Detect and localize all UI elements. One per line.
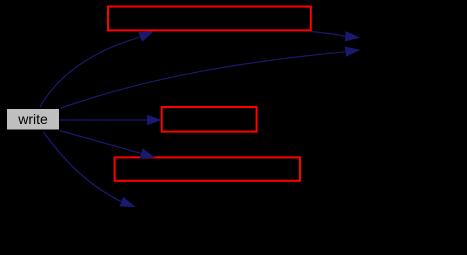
node: lower red box	[115, 157, 300, 180]
arrowhead: top red box to far right node	[345, 31, 361, 41]
arrowhead: write to far right node	[345, 47, 361, 57]
arrowhead: write to lower red box	[140, 149, 156, 159]
node: write (current function, grey)	[7, 109, 60, 131]
node: top red box (called function, empty/black label)	[108, 7, 311, 31]
edge: write to top red box (curved)	[40, 37, 140, 107]
arrowhead: write to bottom node	[120, 197, 136, 207]
edge: write to far right node (long curve)	[61, 52, 345, 108]
svg-text:write: write	[17, 111, 48, 127]
edge: write to middle red box (horizontal)	[60, 119, 148, 121]
edge: top red box to far right node	[312, 32, 346, 37]
edge: write to bottom node (curved down)	[44, 132, 122, 202]
arrowhead: write to top red box	[138, 31, 154, 42]
node: middle red box	[162, 107, 257, 132]
arrowhead: write to middle red box	[147, 115, 162, 125]
edge: write to lower red box (diagonal)	[60, 131, 142, 154]
